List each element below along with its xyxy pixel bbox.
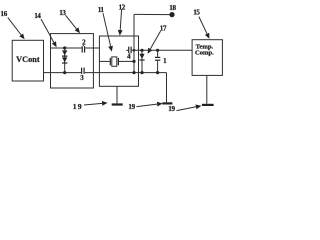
leader arrow 17 to varactor diode — [150, 31, 160, 49]
crystal X1 — [110, 58, 111, 65]
wire bottom (VCont to ground corner) — [44, 72, 82, 74]
svg-text:1: 1 — [163, 57, 167, 65]
ground bar 19b — [162, 102, 172, 104]
svg-text:4: 4 — [127, 52, 131, 60]
leader arrow 14 to diode pair — [41, 19, 54, 43]
node dot diode top — [63, 46, 66, 49]
leader arrow 11 to crystal — [103, 13, 111, 46]
wire top (box13 to box11) — [51, 47, 82, 49]
box 11 (oscillation circuit) — [99, 36, 138, 86]
node dot capacitor 1 top — [156, 49, 159, 52]
vertical wire to node 18 — [133, 14, 135, 72]
wire mid (to Temp Comp) — [126, 49, 128, 51]
svg-text:19: 19 — [168, 105, 175, 113]
svg-text:14: 14 — [34, 12, 41, 20]
box 13 (coupling network) — [51, 34, 94, 88]
varactor diode 17 — [141, 50, 143, 72]
diode D2 in box 13 — [62, 57, 67, 62]
ground bar 19a — [112, 103, 123, 105]
leader arrow 13 to box 13 — [66, 15, 77, 29]
svg-text:19: 19 — [128, 103, 135, 111]
svg-text:16: 16 — [1, 10, 8, 18]
svg-text:12: 12 — [119, 4, 126, 12]
svg-text:18: 18 — [169, 4, 176, 12]
node dot diode bottom — [63, 71, 66, 74]
capacitor 1 — [157, 50, 159, 57]
node 18 terminal dot — [169, 12, 174, 17]
box VCont (voltage control circuit) — [12, 40, 43, 81]
svg-text:VCont: VCont — [16, 55, 40, 64]
svg-text:11: 11 — [98, 6, 105, 14]
box 15 Temp. Comp. — [192, 40, 222, 76]
svg-text:15: 15 — [193, 9, 200, 17]
diode D1 in box 13 — [62, 50, 67, 55]
svg-text:Comp.: Comp. — [195, 49, 214, 56]
svg-text:3: 3 — [80, 74, 84, 82]
crystal lead — [99, 60, 109, 62]
svg-text:2: 2 — [82, 39, 86, 47]
leader arrow 12 to box 11 top edge — [120, 10, 121, 31]
leader arrow 15 to Temp Comp box — [199, 17, 207, 34]
svg-text:19: 19 — [73, 102, 83, 111]
leader arrow 19 right — [177, 107, 197, 111]
leader arrow 19 left — [84, 103, 102, 105]
capacitor 3 — [81, 68, 82, 74]
node dot bottom junction — [132, 71, 135, 74]
leader arrow 16 to VCont box — [8, 18, 21, 35]
ground stem under box 11 — [116, 86, 118, 103]
capacitor 4 — [128, 47, 129, 54]
diode pair stem — [64, 48, 66, 73]
ground stem under Temp Comp — [206, 75, 208, 103]
leader arrow 19 middle — [137, 104, 158, 107]
wire to node 18 dot — [134, 13, 170, 15]
node dot varactor bottom — [140, 71, 143, 74]
node dot crystal junction — [132, 60, 135, 63]
node dot varactor top — [140, 49, 143, 52]
ground stem from bottom wire corner — [166, 73, 168, 103]
node dot capacitor 1 bottom — [156, 71, 159, 74]
ground bar 19c — [202, 104, 214, 106]
capacitor 2 — [82, 46, 83, 52]
node dot wire crossing — [133, 49, 136, 52]
